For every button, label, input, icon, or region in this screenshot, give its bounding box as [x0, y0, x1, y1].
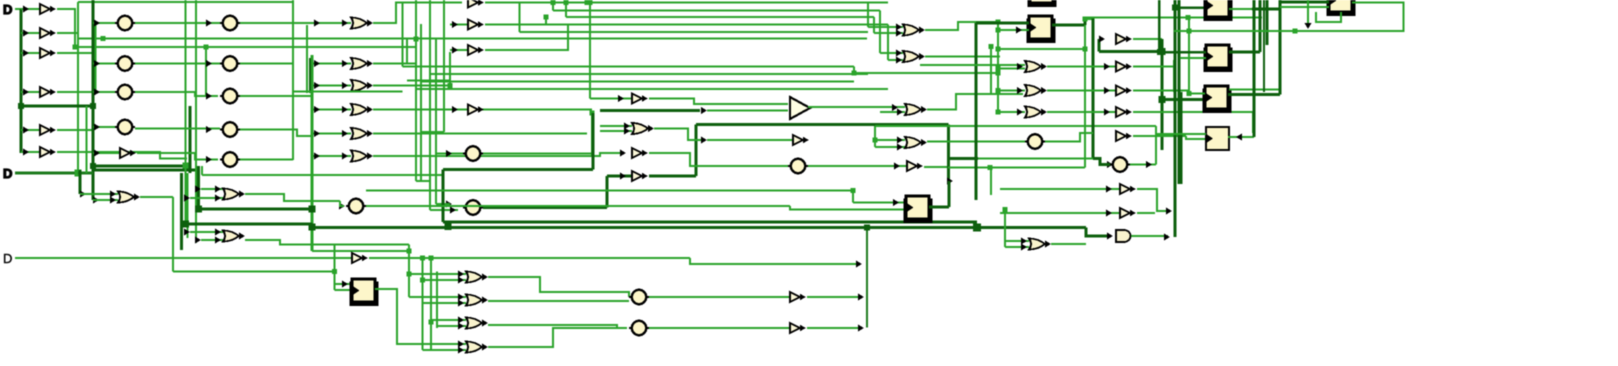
wire: dark bus y=209 [199, 207, 313, 210]
wire: dark long y=124.5 x696-948 [696, 123, 949, 126]
wire: vertical x=86.5 [86, 106, 88, 173]
wire: y=73 long [854, 72, 998, 74]
wire: buf L5 out [57, 129, 93, 131]
buffer M1 (468,2.5) [468, 0, 484, 8]
wire: bright vertical x=78 [77, 2, 79, 173]
wire: dark vertical x=593 [592, 113, 595, 170]
wire: FF7 out dark [929, 205, 949, 208]
wire: FF4 out dark to x=1280 [1228, 93, 1280, 96]
wire: bundle y=32 [520, 31, 869, 33]
wire: G1f out y=156 to M12 [373, 153, 622, 156]
or gate R2 (1025,90.5) [1025, 85, 1047, 96]
svg-text:D: D [3, 251, 12, 266]
wire: dark stub bus x=310 [309, 58, 311, 93]
wire: dark M6 out y=207.5 [483, 206, 607, 209]
wire: R2 out [1047, 90, 1116, 92]
wire: buf L6 out jog [57, 152, 187, 159]
or gate M10 (632,128.5) [632, 123, 654, 134]
wire: vertical x=334.5 [334, 245, 336, 291]
flip-flop box FF0 (1030,-20) cut at top [1028, 0, 1057, 7]
arrow down (1308,29) [1305, 23, 1312, 29]
wire: C1d out y=128 [135, 128, 220, 130]
inverter circle C1b (125,63.5) [115, 56, 135, 70]
wire: stub to buffer L2 [21, 32, 40, 34]
wire: vertical x=437 [436, 272, 438, 328]
wire: BL3 out long y=206 [366, 205, 790, 207]
wire: buf L3 out [57, 52, 93, 54]
wire: horizontal y=80.5 [407, 80, 450, 82]
wire: into or M15 b [875, 146, 905, 148]
wire: M2 out / bundle y=24.5 [485, 24, 888, 26]
wire: dark vertical x=1175 [1173, 0, 1176, 237]
wire: vertical x=546b [545, 17, 547, 25]
wire: into or R2 [998, 90, 1025, 92]
wire: FF4 out bright y=89.5 [1229, 89, 1280, 91]
flip-flop box FF4 (1205,86) [1203, 86, 1232, 113]
buffer DBuf (352,258) [352, 253, 368, 263]
wire: into or BR4 b [1005, 246, 1029, 248]
or gate D2 (466,300) [466, 295, 488, 306]
wire: DB1 out [807, 296, 862, 298]
wire: jog y=264 to x=867 [690, 258, 858, 264]
wire: M10 out [654, 129, 701, 141]
wire: stub to buffer L5 [21, 129, 40, 131]
wire: dark vertical x=93 lower [91, 184, 94, 200]
wire: vertical x=293 [292, 0, 294, 160]
wire: T2 out [925, 56, 1000, 58]
wire: into circle M5 [436, 153, 463, 155]
wire: dark vertical x=1093 [1091, 17, 1094, 159]
wire: vertical x=874 [873, 17, 875, 33]
buffer M8 (632,98.5) [632, 94, 648, 104]
wire: R4 out jog [1045, 133, 1093, 142]
wire: dark vertical x=948.5 [947, 125, 950, 182]
wire: into or M10 a [600, 125, 632, 127]
wire: into or D1 b [423, 279, 467, 281]
wire: vertical x=867 down to D row [866, 228, 868, 328]
or gate G1e (351,133.5) [351, 128, 373, 139]
or gate BL1 (118,197) [118, 192, 140, 203]
inverter circle C1a (125,23) [115, 16, 135, 30]
wire: M12 out to circle M13 [649, 153, 788, 166]
buffer R8 (1116,112) [1116, 107, 1132, 117]
wire: vertical x=553 [552, 3, 554, 11]
wire: into or T2 b [888, 59, 903, 61]
wire: into buffer M8 [590, 98, 632, 100]
wire: into box FF7 a [853, 202, 906, 204]
wire: y=167.5 long [948, 167, 1085, 169]
flip-flop box FF2 (1206,-6) cut top [1204, 0, 1233, 21]
wire: dark vertical x=1162 [1160, 39, 1163, 150]
wire: vertical x=519.5 [519, 3, 521, 33]
arrow (953,181) [947, 178, 953, 185]
wire: dark y=51.5 feedback [1099, 50, 1162, 53]
wire: into circle M6 a [436, 203, 450, 205]
wire: into or T1 a [868, 26, 903, 28]
junction (1188,17.5) [1186, 15, 1191, 20]
wire: vertical x=187.5 [187, 173, 189, 238]
buffer M12 (632,153) [632, 148, 648, 158]
wire: vertical x=1005 [1004, 210, 1006, 248]
wire: M9 out y=107 [808, 106, 905, 108]
wire: into or D4 a [431, 343, 466, 345]
wire: dark vertical x=80 [79, 170, 82, 194]
or gate D1 (466,277) [466, 272, 488, 283]
inverter circle C2d (230,129.5) [220, 122, 240, 136]
buffer M4 (468,109.5) [468, 105, 484, 115]
buffer DB2 (790,328) [790, 323, 806, 333]
buffer R6 (1116,66.5) [1116, 62, 1132, 72]
and gate BR1 (1116,236) [1116, 230, 1131, 242]
wire: long y=175 x202-444 [202, 174, 444, 176]
junction (592,113) [590, 111, 595, 116]
dark junction (1162,99.5) [1159, 96, 1166, 103]
buffer M16 (907,166) [907, 161, 923, 171]
wire: vertical x=402.5 [402, 2, 404, 67]
wire: R9 out [1133, 135, 1186, 137]
wire: vertical x=444 [443, 0, 445, 132]
wire: vertical x=1174 [1173, 60, 1175, 92]
wire: into or R1 [920, 64, 1025, 66]
wire: R8 out [1133, 111, 1253, 113]
wire: M15 out feeds circle R4 [927, 141, 1025, 143]
wire: dark into FF6 [1280, 1, 1329, 4]
wire: dark y=166 x93-186 [93, 165, 186, 168]
wire: dark bus y=224 left [186, 222, 313, 225]
wire: y=132 stub [421, 131, 444, 133]
or gate G1c (351,85.5) [351, 80, 373, 91]
wire: dark vertical x=181.5 [180, 173, 183, 250]
wire: C2a out y=23 to gate [240, 22, 351, 24]
wire: C2b out y=63.5 [240, 63, 293, 65]
wire: vertical x=206 [205, 47, 207, 96]
wire: dark bus y=227.5 right [977, 226, 1086, 229]
wire: vertical x=888 [887, 25, 889, 61]
wire: into or D3 a [431, 319, 466, 321]
wire: buf L1 out to x=75 down [57, 9, 75, 47]
wire: dark M7 out [649, 175, 696, 178]
wire: vertical bus x=312 (55-251) [311, 55, 314, 251]
wire: dark into FF1 [976, 22, 1029, 25]
wire: into circle M6 b [430, 209, 458, 211]
wire: dark y=176 into buffer M7 [607, 175, 632, 178]
wire: into or R3 [998, 111, 1025, 113]
or gate G1f (351,156) [351, 151, 373, 162]
buffer M7 (632,176) on dark wire [632, 171, 648, 181]
wire: BL2 out jog [245, 194, 340, 201]
wire: vertical x=991 lower [990, 168, 992, 196]
wire: D3 pin long wire y=258 [15, 257, 173, 259]
wire: y=251 x312-409 [312, 250, 409, 252]
wire: M4 out to x=590 [485, 109, 590, 111]
wire: vertical x=1308 arrow down [1307, 0, 1309, 27]
wire: dark into FF2 [1175, 6, 1206, 9]
or gate BL4 (223,236) [223, 231, 245, 242]
or gate R1 (1025,66.5) [1025, 61, 1047, 72]
wire: R9 to FF5 b [1186, 136, 1206, 139]
wire: M5 out y=153.5 [483, 153, 592, 155]
wire: y=258 to buffer D1 [173, 257, 352, 259]
wire: vertical x=307 [306, 25, 308, 93]
wire: buf L4 out [57, 91, 93, 93]
wire: vertical x=185.5 full [184, 0, 186, 224]
wire: y=271.6 [173, 271, 335, 273]
wire: BR1 out [1131, 235, 1168, 237]
wire: BL4 out to x=409 [245, 240, 409, 245]
wire: dark vertical x=1260 [1259, 0, 1262, 52]
junction x=103 y=38.5 [101, 36, 106, 41]
wire: vertical x=998 [997, 22, 999, 112]
wire: into or gate BL1 b [93, 199, 118, 201]
wire: vertical x=868b [867, 3, 869, 28]
inverter circle M6 (473,207.5) [463, 200, 483, 214]
wire: into or D3 b [437, 325, 466, 327]
or gate R3 (1025,112) [1025, 107, 1047, 118]
dark junction (977,227.5) [973, 224, 981, 232]
wire: into or gate BL1 a [80, 193, 118, 195]
wire: vertical x=407 [406, 39, 408, 64]
wire: C2d out jog [240, 130, 313, 137]
wire: dark vertical x=949 [947, 181, 950, 207]
wire: C1c out jog to y=96 [135, 92, 218, 96]
wire: M16 out [924, 166, 947, 168]
buffer M2 (468,24.5) [468, 20, 484, 30]
wire: dark vertical x=1159 [1158, 0, 1161, 53]
wire: into circle C1c [93, 91, 115, 93]
or gate T1 (903,30) [903, 25, 925, 36]
wire: long horizontal y=38.5 (x78-867) [78, 38, 867, 40]
or gate G1d (351,109.5) [351, 104, 373, 115]
wire: into or M14 b [880, 111, 905, 113]
wire: into FF3 b [1180, 57, 1206, 59]
wire: T1 out to x=998 [925, 22, 998, 30]
wire: dark horizontal y=169.5 [443, 168, 593, 171]
buffer M3 (468,50) [468, 45, 484, 55]
junction (1189,93.5) [1187, 91, 1192, 96]
flip-flop box FF8 (352,279) [350, 279, 379, 306]
wire: FF5 out [1228, 136, 1254, 138]
wire: into circle C1d [93, 126, 115, 128]
wire: left dark vertical bus x=21 [19, 9, 22, 153]
wire: vertical x=421 [420, 24, 422, 181]
wire: D2 out [488, 300, 629, 302]
wire: dark horizontal y=106 x21-93 [21, 104, 93, 107]
wire: vertical x=853 [852, 190, 854, 202]
wire: into or BL4 b [201, 239, 223, 241]
wire: into or D2 a [409, 296, 466, 298]
buffer R5 (1116,39) [1116, 34, 1132, 44]
wire: into FF8 a [335, 283, 353, 285]
buffer DB1 (790,297) [790, 292, 806, 302]
dark junction (1175,7.7) [1172, 5, 1178, 11]
wire: into or D4 b [423, 349, 467, 351]
arrow at (707,110.5) [701, 107, 707, 114]
wire: y=158.5 bright x978-1093 [978, 158, 1093, 160]
or gate G1a (351,23) [351, 18, 373, 29]
wire: into FF4 a [1189, 93, 1205, 95]
wire: circle M13 out [808, 165, 907, 167]
wire: vertical x=430 [429, 0, 431, 210]
wire: into or BL4 a [190, 231, 223, 233]
wire: y=173 x78-93 [78, 172, 93, 175]
wire: DC2 out to buffer DB2 [649, 327, 790, 329]
wire: stub to buffer L6 [21, 151, 40, 153]
wire: bundle y=10.5 [553, 10, 880, 12]
wire: M1 out / bundle y=2.5 [485, 2, 888, 4]
wire: C1a out y=23 [135, 22, 220, 24]
wire: vertical x=409 [408, 245, 410, 298]
wire: dark y=99.6 into FF4 [1162, 98, 1207, 101]
wire: D3 out [488, 325, 627, 328]
wire: G1b out [373, 39, 416, 64]
wire: dark y=170 x93-200 [93, 169, 200, 172]
wire: D1 out to circle DC1 [488, 277, 629, 297]
wire: into buffer BR3 [1000, 212, 1120, 214]
wire: BR2 out [1137, 189, 1169, 211]
svg-text:D: D [3, 166, 12, 181]
junction (1295,31) [1293, 29, 1298, 34]
wire: C2c out y=96 [240, 95, 312, 97]
inverter circle M5 (473,153.5) [463, 146, 483, 160]
wire: G1a out up to y=2.5 into M1 [373, 3, 462, 24]
wire: y=31 long left [1174, 30, 1295, 32]
wire: dark into FF3 a [1159, 51, 1206, 54]
wire: vertical x=1189 [1188, 18, 1190, 94]
or gate D4 (466,347) [466, 342, 488, 353]
or gate T2 (903,56.5) [903, 51, 925, 62]
wire: dark vertical x=607 [606, 176, 609, 208]
wire: bundle y=81.5 [421, 81, 854, 83]
wire: vertical x=1156 [1155, 134, 1157, 165]
wire: dark vertical x=190 [189, 106, 192, 173]
wire: into FF1 lower [998, 29, 1029, 31]
wire: DC1 out to buffer DB1 [649, 296, 790, 298]
wire: vertical x=592 [591, 113, 593, 155]
inverter circle C2c (230,96) [220, 89, 240, 103]
wire: DBuf out y=258 long [369, 257, 690, 259]
wire: D2 pin bus y=173 [15, 172, 78, 175]
wire: M3 out [485, 25, 568, 51]
wire: R5 out [1133, 38, 1162, 40]
wire: dark vertical x=93 [91, 0, 94, 200]
wire: dark vertical x=1267 [1266, 0, 1269, 45]
or gate G1b (351,63.5) [351, 58, 373, 69]
wire: into R1 lower [998, 68, 1025, 70]
wire: R1 out [1047, 66, 1116, 68]
wire: into or BR4 a [1005, 240, 1029, 242]
wire: dark bus y=227.5 long [312, 226, 977, 229]
wire: M14 out to R2 lower input [927, 94, 1023, 110]
junction (206,47) [204, 45, 209, 50]
arrow into circle M6 [446, 201, 452, 208]
wire: vertical x=1085 long [1084, 25, 1086, 168]
wire: into buffer BR2 [1000, 188, 1120, 190]
arrow (99,200) [93, 197, 99, 204]
wire: into circle C1a [93, 22, 115, 24]
wire: G1c out [373, 85, 450, 87]
wire: FF3 out dark [1229, 51, 1260, 54]
svg-text:D: D [3, 2, 12, 17]
wire: stub to buffer L3 [21, 52, 40, 54]
inverter circle C2b (230,63.5) [220, 56, 240, 70]
dark junction (1162,51.5) [1159, 48, 1166, 55]
wire: into or M10 b [600, 130, 632, 132]
wire: vertical x=1264 [1263, 0, 1265, 92]
inverter circle C2a (230,23) [220, 16, 240, 30]
wire: into or BL2 a [201, 188, 223, 190]
wire: into or BL2 b [190, 197, 223, 199]
dark junction (448,226.5) [445, 223, 452, 230]
buffer M11 (793,140) [793, 135, 809, 145]
wire: BR4 out [1051, 243, 1086, 245]
junction (875,140) [873, 138, 878, 143]
wire: long y=126 [875, 125, 1156, 127]
buffer L3 (x=40,y=53) [40, 48, 56, 58]
wire: thick dark y=110.5 x600-700 [600, 109, 700, 112]
arrow (86,194) [80, 191, 86, 198]
wire: FF6 out loop to y=31 [1295, 3, 1404, 32]
wire: D4 out jog [488, 328, 627, 347]
wire: R7 out [1133, 90, 1189, 92]
wire: into FF8 b [335, 289, 353, 291]
wire: G1d out y=109.5 [373, 109, 592, 111]
or gate M15 (905,142.5) [905, 137, 927, 148]
buffer L2 (x=40,y=33) [40, 28, 56, 38]
wire: dark vertical x=1280 [1278, 0, 1281, 95]
inverter circle DC2 (639,328) [629, 321, 649, 335]
wire: y=49 x998-1085 [998, 48, 1085, 50]
wire: vertical x=450 [449, 52, 451, 86]
wire: pin D1 to bus [15, 8, 21, 10]
or gate M14 (905,109.5) [905, 104, 927, 115]
wire: dark vertical x=443 [442, 170, 445, 223]
wire: M8 out to big buffer [649, 99, 788, 105]
wire: into or D1 a [409, 273, 466, 275]
inverter circle C1d (125,127) [115, 120, 135, 134]
wire: into or T2 a [880, 52, 903, 54]
junction (990,167.5) [988, 165, 993, 170]
inverter circle BL3 (356,206) [346, 199, 366, 213]
or gate D3 (466,323) [466, 318, 488, 329]
wire: into FF6 b [1280, 6, 1329, 8]
wire: y=110.5 to big buffer [707, 110, 788, 112]
wire: DB2 out [807, 327, 862, 329]
arrow (201,189) [195, 186, 201, 193]
flip-flop box FF6 (1329,-11) [1327, 0, 1356, 16]
buffer R7 (1116,90.5) [1116, 86, 1132, 96]
wire: dark bus y=222 x443-977 [443, 220, 977, 223]
buffer L1 (x=40,y=9) [40, 4, 56, 14]
wire: stub to buffer L4 [21, 91, 40, 93]
wire: vertical x=422.5 lower [422, 305, 424, 350]
wire: into buffer C1e [93, 152, 120, 154]
arrow (190,232) [184, 229, 190, 236]
wire: vertical x=436 [435, 39, 437, 204]
wire: dark vertical x=696 [694, 125, 697, 177]
wire: into or M15 a [875, 139, 905, 141]
wire: C1b out y=63.5 [135, 63, 220, 65]
wire: dark y=9 [1252, 8, 1280, 11]
buffer BR3 (1120,213) [1120, 208, 1136, 218]
inverter circle DC1 (639,297) [629, 290, 649, 304]
buffer C1e (120,153) [120, 148, 136, 158]
wire: horizontal y=47 x75-416 [75, 46, 416, 48]
wire: dark vertical x=976 [974, 23, 977, 200]
junction (78,173) [75, 170, 82, 177]
wire: FF6 bottom loop [1316, 12, 1341, 22]
wire: vertical x=416 [415, 0, 417, 181]
wire: into circle C1b [93, 63, 115, 65]
